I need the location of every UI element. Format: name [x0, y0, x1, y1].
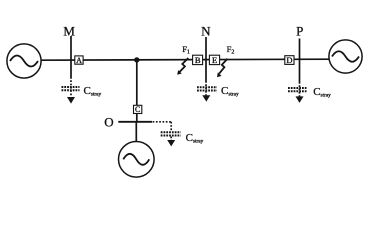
svg-text:A: A: [76, 56, 82, 65]
label bus M: [63, 23, 75, 38]
ground arrow at bus O: [167, 140, 175, 146]
ground arrow at bus P: [296, 96, 304, 103]
label bus O: [104, 114, 113, 129]
label F2: [227, 44, 235, 56]
wire main horizontal line M-N-P: [41, 59, 329, 60]
capacitor C_stray at bus O: [153, 122, 181, 140]
svg-text:Cstray: Cstray: [84, 85, 102, 97]
bus N: [205, 37, 207, 81]
ground arrow at bus N: [202, 95, 210, 101]
breaker E: [209, 55, 219, 65]
svg-text:Cstray: Cstray: [221, 85, 239, 97]
svg-text:N: N: [201, 24, 211, 39]
svg-text:Cstray: Cstray: [313, 86, 331, 98]
svg-text:E: E: [212, 55, 217, 65]
breaker D: [285, 55, 294, 65]
capacitor C_stray at bus P: [288, 82, 307, 97]
fault bolt F2: [217, 59, 228, 77]
label C_stray at N: [221, 85, 239, 97]
capacitor C_stray at bus M: [62, 77, 80, 97]
generator left: [7, 44, 41, 78]
svg-text:M: M: [63, 23, 75, 38]
bus P: [299, 39, 301, 83]
svg-text:F1: F1: [182, 44, 190, 56]
svg-text:C: C: [135, 105, 140, 114]
label C_stray at O: [186, 132, 204, 144]
breaker B: [193, 55, 203, 65]
generator right: [329, 40, 362, 73]
breaker A: [75, 56, 83, 65]
bus O: [118, 121, 152, 123]
label bus N: [201, 24, 211, 39]
svg-text:F2: F2: [227, 44, 235, 56]
label C_stray at M: [84, 85, 102, 97]
label C_stray at P: [313, 86, 331, 98]
fault bolt F1: [177, 58, 188, 75]
label F1: [182, 44, 190, 56]
svg-text:P: P: [296, 24, 303, 39]
svg-text:D: D: [286, 55, 292, 65]
wire bus O to generator: [135, 122, 137, 142]
label bus P: [296, 24, 303, 39]
svg-text:B: B: [195, 55, 201, 65]
node junction between A and B: [134, 57, 139, 62]
capacitor C_stray at bus N: [197, 81, 217, 95]
bus M: [70, 36, 72, 77]
wire junction to bus O: [136, 60, 138, 122]
breaker C: [134, 105, 142, 114]
ground arrow at bus M: [67, 97, 75, 104]
generator bottom: [119, 142, 155, 178]
svg-text:Cstray: Cstray: [186, 132, 204, 144]
svg-text:O: O: [104, 114, 113, 129]
